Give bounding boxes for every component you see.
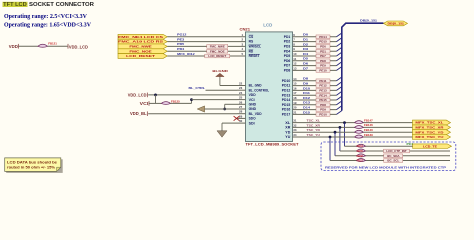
net label PD15 (boxed) xyxy=(316,40,330,44)
svg-text:PE13: PE13 xyxy=(319,88,327,92)
svg-text:22: 22 xyxy=(239,82,243,86)
svg-text:PE15: PE15 xyxy=(319,98,327,102)
svg-text:RESERVED FOR NEW LCD MODULE WI: RESERVED FOR NEW LCD MODULE WITH INTEGRA… xyxy=(325,165,446,169)
svg-text:DB[0..15]: DB[0..15] xyxy=(360,18,377,22)
svg-text:PD8: PD8 xyxy=(320,103,326,107)
svg-text:19: 19 xyxy=(293,101,297,105)
svg-text:FMC_NOE: FMC_NOE xyxy=(210,49,225,53)
net label I2C_SCL (boxed) xyxy=(384,159,403,163)
wire BL_GND xyxy=(220,85,237,87)
svg-text:TFT_LCD_MB989_SOCKET: TFT_LCD_MB989_SOCKET xyxy=(246,143,299,147)
net label LCD_RESET (boxed) xyxy=(205,54,230,58)
svg-text:D9: D9 xyxy=(303,82,308,86)
wire FMC_NE4 LCD CS to CN21 pin 1 xyxy=(167,36,245,38)
svg-text:D3: D3 xyxy=(303,47,308,51)
pin stub 30 xyxy=(237,122,246,124)
net label PE14 (boxed) xyxy=(316,93,330,97)
svg-text:21: 21 xyxy=(293,110,297,114)
svg-text:PD11: PD11 xyxy=(282,84,291,88)
ferrite bead FB121 xyxy=(38,44,48,47)
svg-text:PD10: PD10 xyxy=(319,112,327,116)
wire CTP row 3 xyxy=(335,155,450,157)
svg-text:LCD_CTP_INT: LCD_CTP_INT xyxy=(386,149,407,153)
svg-text:11: 11 xyxy=(293,57,296,61)
net flag MFX_TSC_XL xyxy=(413,120,451,125)
bus entry D0 xyxy=(337,33,342,37)
svg-text:BLGND: BLGND xyxy=(212,69,229,73)
svg-text:Operating range: 1.65<VDD<3.3V: Operating range: 1.65<VDD<3.3V xyxy=(4,23,92,29)
bus entry D15 xyxy=(337,111,342,115)
bus entry D12 xyxy=(337,96,342,100)
wire drop TSC_XR to CTP row xyxy=(339,127,341,151)
net label PD14 (boxed) xyxy=(316,35,330,39)
power flag GND arrow xyxy=(197,106,204,112)
svg-text:FMC_A19 LCD RS: FMC_A19 LCD RS xyxy=(118,40,163,44)
wire D13 pin 19 xyxy=(293,104,337,106)
bus entry D10 xyxy=(337,87,342,91)
wire D15 pin 21 xyxy=(293,113,337,115)
pin stub 25 xyxy=(237,99,246,101)
svg-text:15: 15 xyxy=(293,82,297,86)
net label PE8 (boxed) xyxy=(316,59,330,63)
svg-text:TSC_XR: TSC_XR xyxy=(307,123,321,127)
junction TSC_XL xyxy=(343,121,346,124)
net label PE7 (boxed) xyxy=(316,54,330,58)
svg-text:MFX_TSC_XR: MFX_TSC_XR xyxy=(415,125,444,129)
svg-text:23: 23 xyxy=(239,86,243,90)
svg-text:TSC_XL: TSC_XL xyxy=(307,119,321,123)
svg-text:VCI: VCI xyxy=(140,101,149,106)
net label PD0 (boxed) xyxy=(316,45,330,49)
wire D9 pin 15 xyxy=(293,85,337,87)
svg-text:PD13: PD13 xyxy=(282,93,291,97)
svg-text:PD6: PD6 xyxy=(284,59,291,63)
svg-text:PD10: PD10 xyxy=(282,79,291,83)
svg-text:BL_CTRL: BL_CTRL xyxy=(189,86,206,90)
wire VDD_LCD to pin VDD xyxy=(148,94,237,96)
no-connect X on SDO xyxy=(234,116,240,121)
svg-text:BL_CONTROL: BL_CONTROL xyxy=(249,88,270,92)
svg-text:32: 32 xyxy=(293,123,297,127)
svg-text:BL_GND: BL_GND xyxy=(249,84,263,88)
net label PE12 (boxed) xyxy=(316,84,330,88)
svg-text:TSC_YD: TSC_YD xyxy=(307,128,321,132)
bus entry D3 xyxy=(337,47,342,51)
svg-text:D11: D11 xyxy=(303,91,310,95)
svg-text:PD14: PD14 xyxy=(319,35,327,39)
net label VDD_BL (to pin 28) xyxy=(146,111,148,116)
svg-text:FB35: FB35 xyxy=(357,149,364,153)
wire BL_CONTROL xyxy=(206,89,238,91)
svg-text:33: 33 xyxy=(293,128,297,132)
wire GND pin 26 xyxy=(225,103,237,105)
wire drop TSC_YU to CTP row xyxy=(329,137,331,161)
bus entry D9 xyxy=(337,82,342,86)
svg-text:WR/SCL: WR/SCL xyxy=(249,45,262,49)
svg-text:TFT LCD: TFT LCD xyxy=(3,2,27,8)
junction on VDD_LCD wire xyxy=(154,94,157,97)
wire CTP row 1 xyxy=(345,145,413,147)
pin stub 26 xyxy=(237,103,246,105)
svg-text:D13: D13 xyxy=(303,101,310,105)
wire SDI xyxy=(222,122,237,124)
wire CTP row 2 xyxy=(340,150,450,152)
svg-text:PD3: PD3 xyxy=(284,45,291,49)
svg-text:D14: D14 xyxy=(303,106,310,110)
svg-text:SOCKET CONNECTOR: SOCKET CONNECTOR xyxy=(29,2,94,8)
svg-text:PD9: PD9 xyxy=(320,108,326,112)
svg-text:D6: D6 xyxy=(303,62,308,66)
junction TSC_YD xyxy=(334,131,337,134)
bus entry D1 xyxy=(337,38,342,42)
svg-text:FB139: FB139 xyxy=(364,133,373,137)
svg-text:PD17: PD17 xyxy=(282,113,291,117)
ferrite bead FB146 xyxy=(355,125,364,128)
svg-text:PE3: PE3 xyxy=(177,37,184,41)
junction on VCI pin wire xyxy=(190,98,193,101)
title highlight TFT LCD xyxy=(3,2,28,7)
svg-text:PE11: PE11 xyxy=(319,79,327,83)
pin stub 24 xyxy=(237,94,246,96)
svg-text:LCD DATA bus should be: LCD DATA bus should be xyxy=(7,161,57,165)
wire D2 pin 8 xyxy=(293,45,337,47)
net flag LCD_TE xyxy=(413,144,452,149)
svg-text:VDD_BL: VDD_BL xyxy=(130,111,147,116)
svg-text:D8: D8 xyxy=(303,77,308,81)
svg-text:17: 17 xyxy=(293,91,297,95)
svg-text:XL: XL xyxy=(285,121,290,125)
svg-text:PD16: PD16 xyxy=(282,108,291,112)
wire D5 pin 11 xyxy=(293,60,337,62)
net label VDD_LCD (to pin 24) xyxy=(146,93,148,98)
svg-text:PE8: PE8 xyxy=(320,59,326,63)
svg-text:LCD: LCD xyxy=(263,23,272,28)
svg-text:RESET: RESET xyxy=(249,54,260,58)
svg-text:I2C_SCL: I2C_SCL xyxy=(387,159,400,163)
svg-text:VDD: VDD xyxy=(249,93,257,97)
wire D12 pin 18 xyxy=(293,99,337,101)
wire drop to bead FB125 xyxy=(155,95,157,104)
wire TSC_YD pin 33 xyxy=(293,131,413,133)
svg-text:MFX_IO12: MFX_IO12 xyxy=(177,52,195,56)
pin stub 28 xyxy=(237,113,246,115)
svg-text:FMC_NOE: FMC_NOE xyxy=(129,49,152,53)
net label VCI feed xyxy=(148,101,150,106)
svg-text:31: 31 xyxy=(293,119,297,123)
net label PE9 (boxed) xyxy=(316,64,330,68)
svg-text:PE10: PE10 xyxy=(319,68,327,72)
svg-text:SDO: SDO xyxy=(249,117,257,121)
wire SDI down to ground xyxy=(221,123,223,131)
svg-text:PE14: PE14 xyxy=(319,93,327,97)
ferrite bead FB34 (CTP) xyxy=(357,144,366,147)
svg-text:24: 24 xyxy=(239,91,243,95)
wire D6 pin 12 xyxy=(293,65,337,67)
svg-text:PD4: PD4 xyxy=(284,49,291,53)
net label PE13 (boxed) xyxy=(316,89,330,93)
wire drop TSC_XL to CTP row xyxy=(344,123,346,147)
svg-text:GND: GND xyxy=(249,107,257,111)
ground symbol xyxy=(217,131,227,137)
ferrite bead FB147 xyxy=(355,121,364,124)
bus entry D5 xyxy=(337,57,342,61)
svg-text:25: 25 xyxy=(239,96,243,100)
wire D4 pin 10 xyxy=(293,55,337,57)
svg-text:D0: D0 xyxy=(303,33,308,37)
wire D11 pin 17 xyxy=(293,94,337,96)
svg-text:GND: GND xyxy=(249,102,257,106)
svg-text:26: 26 xyxy=(239,100,243,104)
net flag FMC_NOE xyxy=(118,49,167,54)
power flag BLGND xyxy=(219,76,221,85)
ferrite bead FB36 (CTP) xyxy=(357,154,366,157)
svg-text:FMC_NE4 LCD CS: FMC_NE4 LCD CS xyxy=(118,35,163,39)
svg-text:PD1: PD1 xyxy=(320,49,326,53)
svg-text:FMC_NWE: FMC_NWE xyxy=(129,44,151,48)
svg-text:PD8: PD8 xyxy=(284,69,291,73)
svg-text:PD0: PD0 xyxy=(320,44,326,48)
wire LCD_RESET to CN21 pin 5 xyxy=(167,55,245,57)
svg-text:BL_VDD: BL_VDD xyxy=(249,112,263,116)
svg-text:LCD_TE: LCD_TE xyxy=(423,144,437,148)
wire D7 pin 13 xyxy=(293,69,337,71)
svg-text:PD2: PD2 xyxy=(284,40,291,44)
svg-text:28: 28 xyxy=(239,110,243,114)
note LCD data bus routing xyxy=(6,159,63,173)
bus entry D6 xyxy=(337,62,342,66)
svg-text:18: 18 xyxy=(293,96,297,100)
svg-text:Operating range: 2.5<VCI<3.3V: Operating range: 2.5<VCI<3.3V xyxy=(4,14,88,20)
svg-text:I2C_SDA: I2C_SDA xyxy=(387,154,401,158)
net label VDD_LCD xyxy=(67,44,69,49)
net label PD9 (boxed) xyxy=(316,108,330,112)
svg-text:VDD: VDD xyxy=(9,44,18,49)
svg-text:13: 13 xyxy=(293,66,297,70)
svg-text:D2: D2 xyxy=(303,42,308,46)
svg-text:RS: RS xyxy=(249,40,254,44)
svg-text:MFX_TSC_YD: MFX_TSC_YD xyxy=(415,130,443,134)
svg-text:VCI: VCI xyxy=(249,98,255,102)
svg-text:LCD_RESET: LCD_RESET xyxy=(208,54,226,58)
net label PD8 (boxed) xyxy=(316,103,330,107)
svg-text:PD5: PD5 xyxy=(284,54,291,58)
svg-text:routed in 50 ohm +/- 15%: routed in 50 ohm +/- 15% xyxy=(7,165,55,169)
bus entry D7 xyxy=(337,67,342,71)
svg-text:TSC_YU: TSC_YU xyxy=(307,133,321,137)
net label PD1 (boxed) xyxy=(316,49,330,53)
svg-text:XR: XR xyxy=(285,126,291,130)
bus entry D11 xyxy=(337,91,342,95)
net flag FMC_A19 LCD RS xyxy=(118,39,167,44)
wire D3 pin 9 xyxy=(293,50,337,52)
bus flag DB[0..15] xyxy=(384,21,408,26)
svg-text:FB146: FB146 xyxy=(364,123,373,127)
svg-text:PD15: PD15 xyxy=(319,40,327,44)
svg-text:FB121: FB121 xyxy=(48,41,57,45)
wire VCI label to bead xyxy=(149,102,161,104)
wire FMC_NWE to CN21 pin 3 xyxy=(167,45,245,47)
svg-text:MFX_TSC_XL: MFX_TSC_XL xyxy=(415,121,443,125)
net label LCD_CTP_INT (boxed) xyxy=(384,149,410,153)
pin stub 27 xyxy=(237,108,246,110)
wire FB125 to riser xyxy=(171,102,192,104)
pin stub 29 xyxy=(237,117,246,119)
net flag MFX_TSC_XR xyxy=(413,125,451,130)
svg-text:FMC_NWE: FMC_NWE xyxy=(210,44,225,48)
bus entry D13 xyxy=(337,101,342,105)
wire FB121 to VDD_LCD xyxy=(48,45,68,47)
wire VDD_BL xyxy=(148,113,237,115)
net label FMC_NWE (boxed) xyxy=(207,45,228,49)
wire TSC_XR pin 32 xyxy=(293,126,413,128)
svg-text:FB36: FB36 xyxy=(357,154,364,158)
svg-text:MFX_TSC_YU: MFX_TSC_YU xyxy=(415,135,443,139)
svg-text:14: 14 xyxy=(293,77,297,81)
net label I2C_SDA (boxed) xyxy=(384,154,403,158)
pin stub 23 xyxy=(237,89,246,91)
svg-text:D5: D5 xyxy=(303,57,308,61)
pin stub 22 xyxy=(237,85,246,87)
bus entry D14 xyxy=(337,106,342,110)
svg-text:YU: YU xyxy=(285,135,291,139)
wire D0 pin 6 xyxy=(293,36,337,38)
ferrite bead FB125 xyxy=(161,102,170,105)
wire D1 pin 7 xyxy=(293,41,337,43)
svg-text:FB34: FB34 xyxy=(357,144,364,148)
net flag MFX_TSC_YD xyxy=(413,130,451,135)
svg-text:PE7: PE7 xyxy=(320,54,326,58)
net flag MFX_TSC_YU xyxy=(413,135,451,140)
ferrite bead FB140 xyxy=(355,130,364,133)
svg-text:30: 30 xyxy=(239,119,243,123)
ferrite bead FB139 xyxy=(355,135,364,138)
wire TSC_XL pin 31 xyxy=(293,122,413,124)
net label FMC_NOE (boxed) xyxy=(207,49,228,53)
svg-text:YD: YD xyxy=(285,130,291,134)
svg-text:RD: RD xyxy=(249,49,254,53)
bus entry D2 xyxy=(337,43,342,47)
svg-text:PD4: PD4 xyxy=(177,47,184,51)
svg-text:D10: D10 xyxy=(303,86,310,90)
junction TSC_YU xyxy=(329,136,332,139)
svg-text:PD7: PD7 xyxy=(284,64,291,68)
ferrite bead FB37 (CTP) xyxy=(357,159,366,162)
wire riser to VCI pin xyxy=(191,100,193,104)
svg-text:D4: D4 xyxy=(303,52,308,56)
svg-text:LCD_RESET: LCD_RESET xyxy=(126,54,155,58)
svg-text:PD15: PD15 xyxy=(282,103,291,107)
svg-text:PE9: PE9 xyxy=(320,64,326,68)
svg-text:D7: D7 xyxy=(303,66,308,70)
svg-text:FB140: FB140 xyxy=(364,128,373,132)
bus entry D4 xyxy=(337,52,342,56)
svg-text:FB147: FB147 xyxy=(364,118,373,122)
wire drop TSC_YD to CTP row xyxy=(334,132,336,156)
svg-text:SDI: SDI xyxy=(249,121,255,125)
svg-text:D15: D15 xyxy=(303,110,310,114)
svg-text:PD14: PD14 xyxy=(282,98,291,102)
svg-text:PD1: PD1 xyxy=(284,35,291,39)
wire GND joining xyxy=(224,104,226,109)
wire D14 pin 20 xyxy=(293,109,337,111)
reserved CTP dashed box xyxy=(321,142,456,171)
wire D10 pin 16 xyxy=(293,89,337,91)
wire FMC_A19 LCD RS to CN21 pin 2 xyxy=(167,41,245,43)
svg-text:20: 20 xyxy=(293,106,297,110)
svg-text:CS: CS xyxy=(249,35,254,39)
wire GND pin 27 xyxy=(205,108,238,110)
wire TSC_YU pin 34 xyxy=(293,136,413,138)
wire VDD to FB121 xyxy=(19,45,38,47)
wire VCI pin xyxy=(192,99,238,101)
net label PE11 (boxed) xyxy=(316,79,330,83)
bus DB[0..15] vertical + corner xyxy=(342,23,384,110)
ferrite bead FB35 (CTP) xyxy=(357,149,366,152)
junction GND xyxy=(223,108,226,111)
svg-text:PE12: PE12 xyxy=(319,84,327,88)
net label PD10 (boxed) xyxy=(316,113,330,117)
svg-text:VDD_LCD: VDD_LCD xyxy=(69,44,88,49)
svg-text:VDD_LCD: VDD_LCD xyxy=(128,92,147,97)
net flag LCD_RESET xyxy=(118,54,167,59)
net label PE15 (boxed) xyxy=(316,98,330,102)
svg-text:D12: D12 xyxy=(303,96,310,100)
net flag FMC_NE4 LCD CS xyxy=(118,34,167,39)
wire CTP row 4 xyxy=(330,160,450,162)
svg-text:PD12: PD12 xyxy=(282,89,291,93)
wire D8 pin 14 xyxy=(293,80,337,82)
svg-text:12: 12 xyxy=(293,62,297,66)
svg-text:D1: D1 xyxy=(303,38,308,42)
net label PE10 (boxed) xyxy=(316,69,330,73)
net flag FMC_NWE xyxy=(118,44,167,49)
bus entry D8 xyxy=(337,77,342,81)
svg-text:FB37: FB37 xyxy=(357,159,364,163)
svg-text:16: 16 xyxy=(293,86,297,90)
svg-text:34: 34 xyxy=(293,133,297,137)
connector CN21 body xyxy=(246,32,293,142)
svg-text:CN21: CN21 xyxy=(240,27,251,31)
svg-text:10: 10 xyxy=(293,52,297,56)
wire FMC_NOE to CN21 pin 4 xyxy=(167,50,245,52)
svg-text:27: 27 xyxy=(239,105,243,109)
svg-text:DB[0..15]: DB[0..15] xyxy=(388,22,404,26)
junction TSC_XR xyxy=(339,126,342,129)
svg-text:PG12: PG12 xyxy=(177,33,187,37)
svg-text:PD5: PD5 xyxy=(177,42,184,46)
